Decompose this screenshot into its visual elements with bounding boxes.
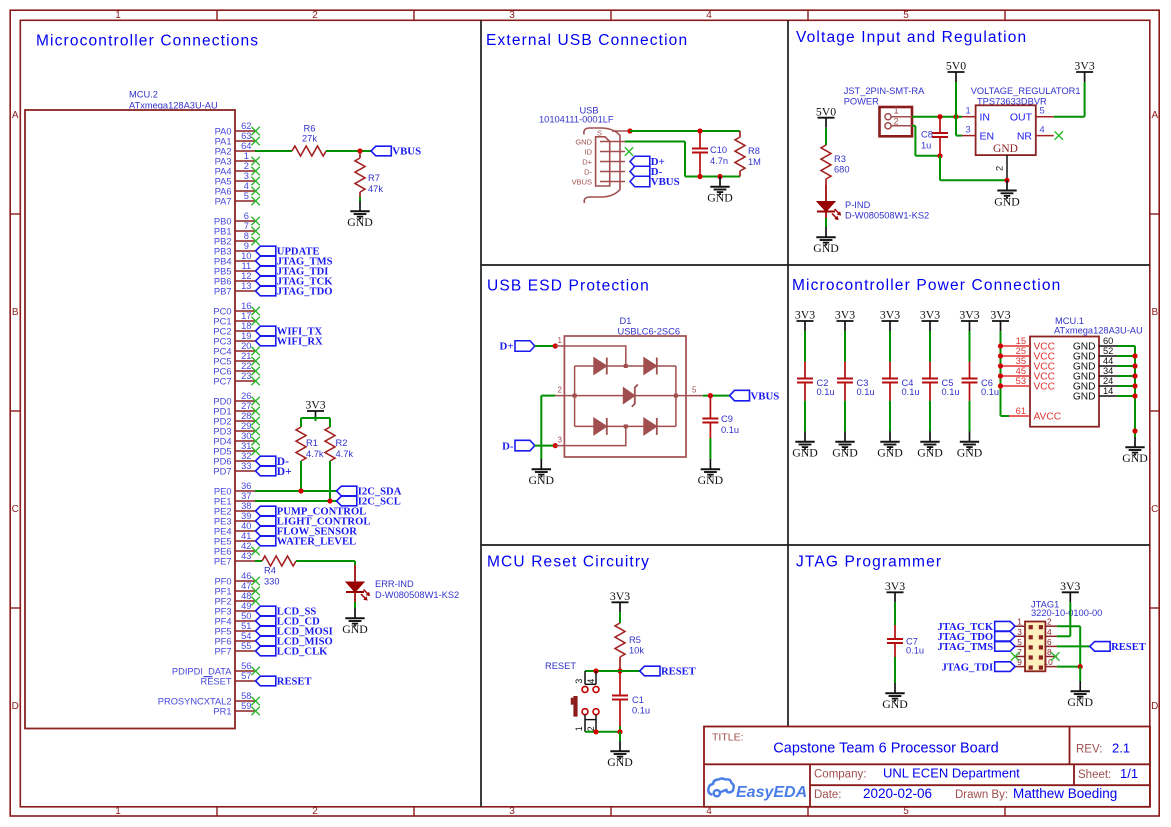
- wire to ground (reset): [619, 732, 621, 741]
- svg-text:R2: R2: [336, 438, 348, 448]
- junction node GND rail y=386: [1132, 383, 1137, 388]
- net port RESET (JTAG): [1090, 642, 1146, 653]
- svg-text:PA6: PA6: [215, 186, 232, 196]
- svg-text:PE0: PE0: [214, 486, 232, 496]
- MCU U2 refdes MCU.2 / ATxmega128A3U-AU: [129, 90, 218, 111]
- svg-text:RESET: RESET: [277, 677, 312, 688]
- junction node C10 top: [697, 128, 702, 133]
- LED P-IND D-W080508W1-KS2: [817, 185, 929, 221]
- net port JTAG_TCK: [937, 621, 1015, 632]
- junction node VCC rail pin 53: [998, 383, 1003, 388]
- svg-text:NR: NR: [1017, 131, 1033, 143]
- wire LED to ground: [354, 602, 356, 608]
- svg-text:PC3: PC3: [213, 336, 231, 346]
- svg-text:37: 37: [241, 491, 251, 501]
- svg-text:MCU.1: MCU.1: [1055, 316, 1084, 326]
- junction node PE0/R1: [298, 488, 303, 493]
- svg-text:4.7n: 4.7n: [710, 156, 728, 166]
- svg-text:1: 1: [966, 106, 971, 116]
- svg-text:VOLTAGE_REGULATOR1: VOLTAGE_REGULATOR1: [971, 86, 1081, 96]
- MCU U2 pin PB5 number 11: [214, 261, 255, 276]
- wire 3V3 to C5: [929, 331, 931, 362]
- MCU U2 pin PD2 number 28: [213, 411, 259, 426]
- ground GND (MCU U1): [1122, 437, 1148, 465]
- MCU U2 pin PE7 number 43: [214, 551, 255, 566]
- MCU U2 pin PE3 number 39: [214, 511, 255, 526]
- wire 3V3 to R5: [619, 612, 621, 623]
- svg-text:ATxmega128A3U-AU: ATxmega128A3U-AU: [1054, 326, 1143, 336]
- ESD diode D1 USBLC6-2SC6 refdes: [618, 316, 681, 337]
- wire JTAG pin4 to 3V3: [1057, 602, 1070, 636]
- ground GND (C6): [957, 432, 983, 460]
- svg-text:6: 6: [1047, 637, 1052, 647]
- net port JTAG_TDO (pin PB7): [256, 286, 333, 297]
- MCU U2 pin PF7 number 55: [214, 641, 255, 656]
- svg-text:4: 4: [1047, 627, 1052, 637]
- svg-text:1M: 1M: [748, 157, 761, 167]
- junction node GND rail y=356: [1132, 353, 1137, 358]
- power flag 5V0 (P-IND branch): [816, 104, 836, 127]
- junction node USB shield: [627, 128, 632, 133]
- svg-text:PC5: PC5: [213, 356, 231, 366]
- capacitor C4 0.1u: [882, 362, 920, 401]
- svg-text:GND: GND: [957, 446, 983, 460]
- svg-text:VCC: VCC: [1034, 382, 1056, 393]
- wire OUT to 3V3: [1054, 82, 1085, 117]
- svg-text:5: 5: [1040, 106, 1045, 116]
- junction node GND rail y=376: [1132, 373, 1137, 378]
- ground GND (C2): [792, 432, 818, 460]
- ground GND (C5): [917, 432, 943, 460]
- svg-text:R7: R7: [368, 173, 380, 183]
- junction node JTAG GND: [1078, 664, 1083, 669]
- EasyEDA logo: [708, 779, 807, 802]
- svg-text:MCU Reset Circuitry: MCU Reset Circuitry: [487, 554, 650, 571]
- D1 internal diode bottom-right: [644, 418, 657, 435]
- svg-text:GND: GND: [342, 622, 368, 636]
- junction node C8 bottom: [937, 153, 942, 158]
- wire R6 to VBUS node: [326, 150, 371, 152]
- svg-text:PE6: PE6: [214, 546, 232, 556]
- svg-text:10: 10: [241, 251, 251, 261]
- svg-text:GND: GND: [994, 194, 1020, 208]
- svg-text:GND: GND: [832, 446, 858, 460]
- no-connect flag JTAG pin7: [1011, 652, 1019, 660]
- svg-text:B: B: [1151, 307, 1158, 318]
- svg-text:1: 1: [574, 726, 584, 731]
- junction node regulator GND: [1004, 178, 1009, 183]
- MCU U1 refdes MCU.1 / ATxmega128A3U-AU: [1054, 316, 1143, 336]
- junction node switch pin2: [593, 729, 598, 734]
- power flag 3V3 (JTAG): [1060, 579, 1080, 602]
- section divider horizontal y=265: [481, 264, 1150, 266]
- junction node C9 top: [708, 393, 713, 398]
- svg-text:GND: GND: [607, 755, 633, 769]
- svg-text:2: 2: [1047, 617, 1052, 627]
- MCU U1 pin GND number 24: [1073, 376, 1117, 393]
- connector JTAG1 body: [1025, 622, 1045, 672]
- svg-text:USBLC6-2SC6: USBLC6-2SC6: [618, 327, 681, 337]
- svg-text:A: A: [1151, 110, 1158, 121]
- wire PE1 to I2C_SCL: [255, 500, 337, 502]
- POWER pin 1: [885, 106, 912, 120]
- MCU U2 pin PC5 number 21: [213, 351, 259, 366]
- svg-text:4: 4: [1040, 125, 1045, 135]
- D1 internal zener diode: [623, 385, 638, 407]
- svg-text:USB ESD Protection: USB ESD Protection: [487, 278, 650, 295]
- svg-text:4: 4: [586, 679, 596, 684]
- net port VBUS (USB): [630, 176, 680, 188]
- svg-text:D+: D+: [277, 466, 292, 478]
- JTAG1 pin 9: [1015, 657, 1025, 667]
- svg-text:39: 39: [241, 511, 251, 521]
- ground GND (JTAG): [1067, 681, 1093, 709]
- net port UPDATE (pin PB3): [256, 246, 320, 257]
- svg-text:4: 4: [244, 181, 249, 191]
- capacitor C9 0.1u: [702, 396, 739, 438]
- svg-text:R5: R5: [629, 635, 641, 645]
- svg-text:15: 15: [1016, 336, 1026, 346]
- svg-text:LCD_CLK: LCD_CLK: [277, 647, 328, 658]
- svg-text:D+: D+: [582, 157, 592, 166]
- wire POWER pin1 to regulator IN: [912, 116, 962, 118]
- wire 3V3 to C7: [894, 602, 896, 625]
- svg-text:C: C: [1151, 504, 1158, 515]
- svg-text:R3: R3: [834, 154, 846, 164]
- svg-text:58: 58: [241, 691, 251, 701]
- JTAG1 pin 2: [1045, 617, 1057, 627]
- MCU U1 pin GND number 14: [1073, 386, 1117, 403]
- junction node GND rail y=396: [1132, 393, 1137, 398]
- MCU U2 pin PF6 number 54: [214, 631, 255, 646]
- capacitor C5 0.1u: [922, 362, 960, 401]
- svg-text:1: 1: [115, 10, 121, 21]
- ground GND (USB shield): [707, 177, 733, 205]
- svg-text:3: 3: [1017, 627, 1022, 637]
- MCU U2 pin PA5 number 3: [215, 171, 260, 186]
- D1 internal diode top-left: [594, 358, 607, 375]
- svg-text:10k: 10k: [629, 646, 644, 656]
- svg-text:WIFI_RX: WIFI_RX: [277, 337, 323, 348]
- junction node GND symbol (USB): [717, 174, 722, 179]
- LED ERR-IND D-W080508W1-KS2: [346, 565, 459, 602]
- capacitor C1 0.1u: [612, 671, 650, 732]
- net port FLOW_SENSOR (pin PE4): [256, 526, 358, 537]
- svg-text:1: 1: [1017, 617, 1022, 627]
- D1 pin 5 stub: [686, 395, 703, 397]
- svg-text:PF0: PF0: [214, 576, 231, 586]
- svg-text:0.1u: 0.1u: [817, 387, 835, 397]
- svg-text:7: 7: [1017, 647, 1022, 657]
- svg-text:3V3: 3V3: [880, 308, 900, 322]
- svg-text:MCU.2: MCU.2: [129, 90, 158, 100]
- svg-text:3: 3: [558, 436, 563, 445]
- svg-text:EN: EN: [980, 131, 995, 143]
- MCU U2 pin PC7 number 23: [213, 371, 259, 386]
- connector USB body outline: [584, 128, 620, 203]
- wire C8 bottom to regulator GND: [940, 156, 1007, 181]
- MCU U2 pin PC2 number 18: [213, 321, 255, 336]
- svg-text:24: 24: [1103, 376, 1113, 386]
- MCU U2 pin PA6 number 4: [215, 181, 260, 196]
- MCU U2 pin PA4 number 2: [215, 161, 260, 176]
- junction node VCC rail pin 25: [998, 353, 1003, 358]
- ground GND (ERR-IND): [342, 608, 368, 636]
- svg-text:3: 3: [966, 125, 971, 135]
- svg-text:330: 330: [264, 577, 280, 587]
- svg-text:13: 13: [241, 281, 251, 291]
- svg-text:PR1: PR1: [213, 706, 231, 716]
- section divider horizontal y=545: [481, 544, 1150, 546]
- svg-text:WATER_LEVEL: WATER_LEVEL: [277, 537, 356, 548]
- capacitor C3 0.1u: [837, 362, 875, 401]
- no-connect flag regulator NR: [1055, 131, 1063, 139]
- JTAG1 pin 6: [1045, 637, 1057, 647]
- svg-text:30: 30: [241, 431, 251, 441]
- wire reset net to switch: [585, 670, 620, 672]
- svg-text:21: 21: [241, 351, 251, 361]
- svg-text:Microcontroller Power Connecti: Microcontroller Power Connection: [792, 277, 1061, 294]
- section divider vertical x=788: [787, 20, 789, 726]
- svg-text:I2C_SCL: I2C_SCL: [358, 497, 401, 508]
- svg-text:C10: C10: [710, 145, 727, 155]
- USB pin S (shield): [597, 129, 630, 138]
- svg-text:43: 43: [241, 551, 251, 561]
- svg-text:3V3: 3V3: [920, 308, 940, 322]
- svg-text:3: 3: [244, 171, 249, 181]
- MCU U2 pin PE6 number 42: [214, 541, 260, 556]
- svg-text:34: 34: [1103, 366, 1113, 376]
- svg-text:PA2: PA2: [215, 146, 232, 156]
- regulator pin 3 EN: [962, 125, 994, 143]
- no-connect flag JTAG pin8: [1051, 652, 1059, 660]
- junction node 5V0 rail: [953, 114, 958, 119]
- svg-text:62: 62: [241, 121, 251, 131]
- section divider vertical x=481: [480, 20, 482, 807]
- MCU U1 pin GND number 44: [1073, 356, 1117, 373]
- svg-text:D-: D-: [502, 440, 514, 452]
- net port VBUS (left section): [371, 146, 421, 158]
- MCU U2 pin PD5 number 31: [213, 441, 259, 456]
- wire MCU U1 GND rail: [1134, 346, 1136, 437]
- junction node C10 bottom: [697, 174, 702, 179]
- connector USB 10104111-0001LF refdes: [539, 106, 614, 125]
- svg-text:2: 2: [312, 806, 318, 817]
- resistor R6 27k: [292, 124, 326, 157]
- svg-text:47: 47: [241, 581, 251, 591]
- junction node switch pin4: [593, 668, 598, 673]
- svg-text:PF5: PF5: [214, 626, 231, 636]
- MCU U1 pin VCC number 15: [1001, 336, 1056, 353]
- svg-text:16: 16: [241, 301, 251, 311]
- svg-text:1: 1: [115, 806, 121, 817]
- svg-text:PD4: PD4: [213, 436, 231, 446]
- title block outline: [704, 727, 1150, 807]
- svg-text:3V3: 3V3: [959, 308, 979, 322]
- svg-text:61: 61: [1016, 406, 1026, 416]
- MCU U2 pin PD6 number 32: [213, 451, 255, 466]
- svg-text:56: 56: [241, 661, 251, 671]
- svg-text:17: 17: [241, 311, 251, 321]
- MCU U2 pin PC6 number 22: [213, 361, 259, 376]
- svg-text:48: 48: [241, 591, 251, 601]
- svg-text:3V3: 3V3: [795, 308, 815, 322]
- svg-text:1: 1: [244, 151, 249, 161]
- ground GND (P-IND): [813, 227, 839, 255]
- svg-text:33: 33: [241, 461, 251, 471]
- svg-text:PB3: PB3: [214, 246, 232, 256]
- svg-text:27k: 27k: [302, 134, 317, 144]
- MCU U1 pin GND number 52: [1073, 346, 1117, 363]
- svg-text:PC7: PC7: [213, 376, 231, 386]
- svg-text:10104111-0001LF: 10104111-0001LF: [539, 115, 614, 125]
- net port I2C_SCL: [337, 496, 401, 507]
- net port D+ (ESD): [500, 341, 535, 353]
- svg-text:19: 19: [241, 331, 251, 341]
- svg-text:PD7: PD7: [213, 466, 231, 476]
- wire C3 to ground: [844, 401, 846, 432]
- svg-text:50: 50: [241, 611, 251, 621]
- resistor R8 1M: [735, 131, 761, 177]
- net port JTAG_TMS (pin PB4): [256, 256, 333, 267]
- wire PA2 to R6: [255, 150, 292, 152]
- MCU U1 pin VCC number 35: [1001, 356, 1056, 373]
- border row ticks: [10, 214, 1159, 608]
- svg-text:GND: GND: [882, 697, 908, 711]
- svg-text:Date:: Date:: [814, 789, 842, 801]
- svg-text:JTAG_TDI: JTAG_TDI: [942, 662, 994, 673]
- MCU U2 pin PE2 number 38: [214, 501, 255, 516]
- wire switch bottom to C1 bottom: [585, 731, 620, 733]
- svg-text:2020-02-06: 2020-02-06: [863, 786, 932, 801]
- svg-text:EasyEDA: EasyEDA: [736, 784, 807, 801]
- svg-text:C1: C1: [632, 695, 644, 705]
- net port LCD_SS (pin PF3): [256, 606, 317, 617]
- svg-text:PROSYNCXTAL2: PROSYNCXTAL2: [158, 696, 232, 706]
- power flag 3V3 (regulator output): [1074, 59, 1094, 82]
- svg-text:0.1u: 0.1u: [981, 387, 999, 397]
- svg-text:A: A: [12, 110, 19, 121]
- wire 3V3 to C4: [889, 331, 891, 362]
- MCU U2 pin PB7 number 13: [214, 281, 255, 296]
- svg-text:PF7: PF7: [214, 646, 231, 656]
- JTAG1 pin 4: [1045, 627, 1057, 637]
- svg-text:R4: R4: [264, 566, 276, 576]
- svg-text:GND: GND: [698, 473, 724, 487]
- border column ticks top: [217, 10, 1005, 816]
- svg-text:JTAG Programmer: JTAG Programmer: [796, 554, 942, 571]
- resistor R1 4.7k: [296, 427, 324, 461]
- svg-text:R1: R1: [306, 438, 318, 448]
- MCU U2 pin PE0 number 36: [214, 481, 255, 496]
- svg-text:0.1u: 0.1u: [632, 706, 650, 716]
- svg-text:PA0: PA0: [215, 126, 232, 136]
- svg-text:PA3: PA3: [215, 156, 232, 166]
- svg-text:51: 51: [241, 621, 251, 631]
- svg-text:3V3: 3V3: [610, 589, 630, 603]
- svg-text:42: 42: [241, 541, 251, 551]
- svg-text:REV:: REV:: [1076, 744, 1102, 756]
- svg-text:GND: GND: [993, 143, 1018, 155]
- junction node D1 pin3: [553, 443, 558, 448]
- power flag 3V3 (C6): [959, 308, 979, 331]
- wire D1 pin2 to ground: [541, 396, 555, 459]
- svg-text:PF4: PF4: [214, 616, 231, 626]
- wire GND pin 34 to rail: [1117, 375, 1135, 377]
- svg-text:ID: ID: [585, 147, 593, 156]
- svg-text:PF1: PF1: [214, 586, 231, 596]
- svg-text:54: 54: [241, 631, 251, 641]
- ground GND (C7): [882, 683, 908, 711]
- svg-text:6: 6: [244, 211, 249, 221]
- svg-text:D-: D-: [584, 167, 592, 176]
- svg-text:PB4: PB4: [214, 256, 232, 266]
- MCU U2 pin PE5 number 41: [214, 531, 255, 546]
- junction node VCC rail pin 35: [998, 363, 1003, 368]
- MCU U2 pin PD7 number 33: [213, 461, 255, 476]
- svg-text:0.1u: 0.1u: [906, 646, 924, 656]
- svg-text:GND: GND: [1122, 451, 1148, 465]
- svg-text:C9: C9: [721, 414, 733, 424]
- capacitor C10 4.7n: [692, 131, 728, 177]
- ESD diode D1 body: [555, 336, 686, 457]
- MCU U2 pin PE4 number 40: [214, 521, 255, 536]
- wire C9 to ground: [709, 438, 711, 459]
- MCU U2 pin PC0 number 16: [213, 301, 259, 316]
- junction node GND rail y=366: [1132, 363, 1137, 368]
- svg-text:PA7: PA7: [215, 196, 232, 206]
- power flag 3V3 (C5): [920, 308, 940, 331]
- svg-text:RESET: RESET: [1111, 642, 1146, 653]
- MCU U1 pin GND number 34: [1073, 366, 1117, 383]
- svg-text:0.1u: 0.1u: [942, 387, 960, 397]
- svg-text:RESET: RESET: [201, 676, 232, 686]
- svg-text:GND: GND: [1073, 392, 1096, 403]
- MCU U2 pin PF4 number 50: [214, 611, 255, 626]
- svg-text:PC0: PC0: [213, 306, 231, 316]
- svg-text:OUT: OUT: [1010, 112, 1033, 124]
- svg-text:ATxmega128A3U-AU: ATxmega128A3U-AU: [129, 101, 218, 111]
- net port RESET (pin RESET): [256, 676, 312, 687]
- power flag 5V0 (regulator input): [946, 59, 966, 82]
- junction node C8 top: [937, 114, 942, 119]
- svg-text:TITLE:: TITLE:: [712, 732, 744, 744]
- net port JTAG_TMS: [937, 642, 1015, 653]
- junction node GND rail bottom: [1132, 428, 1137, 433]
- svg-text:0.1u: 0.1u: [902, 387, 920, 397]
- wire USB GND down to bottom rail: [625, 142, 740, 177]
- svg-text:44: 44: [1103, 356, 1113, 366]
- svg-text:PC1: PC1: [213, 316, 231, 326]
- svg-text:64: 64: [241, 141, 251, 151]
- MCU U2 pin PD0 number 26: [213, 391, 259, 406]
- svg-text:28: 28: [241, 411, 251, 421]
- regulator U1 VOLTAGE_REGULATOR1 TPS73633DBVR refdes: [971, 86, 1081, 106]
- svg-text:D: D: [12, 701, 19, 712]
- power flag 3V3 (C4): [880, 308, 900, 331]
- power flag 3V3 (MCU.1 VCC rail): [990, 308, 1010, 331]
- svg-text:5: 5: [692, 386, 697, 395]
- MCU U2 pin PR1 number 59: [213, 701, 259, 716]
- svg-text:PD1: PD1: [213, 406, 231, 416]
- wire C5 to ground: [929, 401, 931, 432]
- net port JTAG_TDO: [937, 632, 1015, 643]
- svg-text:PE4: PE4: [214, 526, 232, 536]
- svg-text:PB1: PB1: [214, 226, 232, 236]
- svg-text:JTAG_TMS: JTAG_TMS: [937, 642, 993, 653]
- net port D- (ESD): [502, 440, 535, 452]
- wire R4 to ERR-IND LED: [296, 561, 355, 565]
